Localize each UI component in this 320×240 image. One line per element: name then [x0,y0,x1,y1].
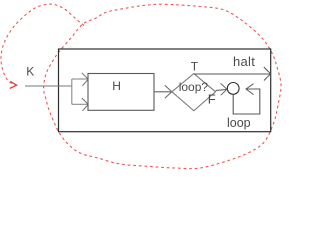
outer rectangle (machine box) [59,49,271,132]
svg-text:halt: halt [233,54,255,69]
arrowhead halt at right wall [264,67,271,81]
svg-text:F: F [208,91,216,106]
svg-text:loop?: loop? [179,80,209,94]
red dashed big loop [44,4,281,168]
svg-text:H: H [112,79,121,93]
arrowhead into circle [221,83,227,95]
red dashed inner spiral arc [1,4,84,85]
wire F branch to circle [216,89,227,90]
wire bracket bottom into H [72,103,88,105]
wire H output to diamond [154,91,171,93]
arrowhead into H top-left [82,73,88,86]
wire K input [25,85,72,87]
wire bracket vertical [71,79,73,104]
svg-text:T: T [191,59,199,73]
wire loop return [233,89,260,114]
box H [88,74,154,111]
diamond loop? decision [172,74,216,111]
circle state [227,83,239,95]
wire bracket top into H [72,78,88,80]
svg-text:K: K [26,64,34,78]
arrowhead loop return into circle [246,84,254,95]
arrowhead into diamond left vertex [165,85,172,98]
red arrowhead at spiral end [10,81,17,88]
arrowhead into H bottom-left [82,98,88,111]
wire T branch to halt [194,73,270,75]
svg-text:loop: loop [227,116,251,130]
